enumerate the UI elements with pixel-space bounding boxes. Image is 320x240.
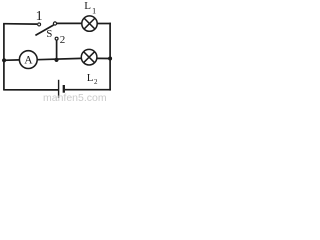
wire bottom left segment <box>3 89 58 91</box>
wire middle center segment <box>37 58 81 59</box>
wire middle left segment <box>3 59 19 61</box>
switch contact 2 <box>55 37 58 40</box>
svg-text:2: 2 <box>94 78 98 86</box>
switch pivot contact <box>53 22 56 25</box>
wire bottom right segment <box>65 89 111 91</box>
node junction right <box>108 57 112 61</box>
switch S blade <box>35 25 53 35</box>
svg-text:A: A <box>24 55 33 67</box>
svg-text:2: 2 <box>60 34 66 46</box>
battery negative plate <box>63 85 65 93</box>
wire right vertical <box>109 23 111 91</box>
lamp L2 <box>81 49 97 65</box>
svg-text:L: L <box>87 72 94 84</box>
wire left vertical <box>3 24 5 90</box>
wire top left segment <box>3 23 37 25</box>
svg-text:manfen5.com: manfen5.com <box>43 92 107 101</box>
wire top right segment <box>57 22 82 24</box>
svg-text:L: L <box>84 0 91 12</box>
svg-text:1: 1 <box>92 6 96 16</box>
svg-text:S: S <box>46 28 52 40</box>
ammeter A <box>19 51 37 69</box>
lamp L1 <box>82 16 97 31</box>
wire contact-2 drop <box>56 40 58 60</box>
wire top right corner segment <box>97 23 111 25</box>
node junction left <box>2 58 6 62</box>
node junction center <box>54 58 58 62</box>
svg-text:1: 1 <box>36 9 43 24</box>
switch contact 1 <box>38 23 41 26</box>
wire middle right segment <box>97 57 111 59</box>
battery positive plate <box>58 80 60 98</box>
